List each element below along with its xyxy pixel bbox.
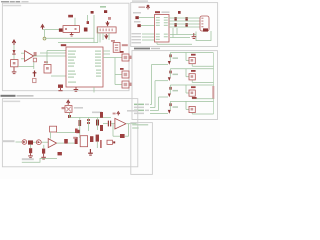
resistor R9 <box>33 78 36 82</box>
capacitor C12 <box>96 118 99 131</box>
K3 label <box>191 86 196 88</box>
IC2 value text <box>162 11 170 13</box>
connector X1 (square) <box>11 60 18 67</box>
wire <box>33 62 35 69</box>
frame D border <box>2 99 137 167</box>
wire into crystal top <box>74 18 76 26</box>
wire <box>16 141 23 143</box>
wires IC1 to right components <box>103 51 122 85</box>
green label text <box>100 6 106 8</box>
wires net labels to IC2 <box>142 34 155 40</box>
capacitor C15 (input of U3) <box>108 121 111 127</box>
LED1 value <box>130 83 132 86</box>
capacitor C22 (upper) <box>75 129 78 134</box>
net text (top right frame D) <box>127 110 138 112</box>
wire <box>13 55 15 60</box>
feedback resistor R12 <box>113 124 129 138</box>
wire below IC1 <box>93 87 95 93</box>
diode D1 <box>135 16 138 19</box>
ground <box>28 153 33 158</box>
label Q2 value <box>68 15 73 18</box>
value text (mid frame D) <box>92 112 102 114</box>
frame B border <box>131 3 218 47</box>
net label rows (left of IC2) <box>132 33 142 43</box>
IC2 interface chip <box>155 15 170 43</box>
wire U3 output <box>126 123 137 125</box>
T3 value text <box>173 90 179 92</box>
connector X2 (serial) <box>200 16 209 32</box>
capacitor C5 <box>185 17 187 27</box>
resistor R10 (below X3) <box>68 115 71 118</box>
note box border <box>131 123 153 175</box>
sheet title text below frame A <box>1 95 34 97</box>
frame D inner header text <box>3 101 20 103</box>
ground (below crystal) <box>70 33 74 37</box>
wires below row <box>31 142 98 149</box>
AGND text <box>22 158 34 160</box>
capacitor C20 <box>29 148 32 153</box>
IC1 microcontroller <box>66 47 103 87</box>
SP1 label <box>120 51 124 53</box>
ground (below IC1) <box>74 87 79 92</box>
jack X3 (boxed) <box>65 106 72 113</box>
net text <box>134 21 141 23</box>
wire op-amp output to IC1 <box>34 55 66 57</box>
header SV1 <box>97 27 116 33</box>
capacitor C2 (left of crystal) <box>59 28 63 31</box>
wire to op-amp U4 <box>42 141 49 143</box>
resistor R15 <box>58 152 62 155</box>
K4 label <box>192 97 197 99</box>
wire <box>111 123 115 125</box>
diode D5 <box>12 45 15 55</box>
supply arrow (down, below header) <box>105 34 108 38</box>
capacitor C17 <box>75 137 78 144</box>
ground (frame B) <box>192 33 197 39</box>
AGND wire <box>22 158 57 162</box>
ground (below X1) <box>12 67 17 74</box>
capacitor C7 (right of op-amp) <box>33 52 36 61</box>
row 1 wires <box>152 53 214 67</box>
supply dot <box>178 11 181 14</box>
S1 label <box>44 61 48 63</box>
sheet title text above frame A <box>1 1 29 2</box>
op-amp U2 <box>21 51 34 62</box>
SP2 label <box>120 68 124 70</box>
wire to op-amp U3 <box>103 123 108 125</box>
diode D7 <box>36 140 41 145</box>
wire X3 down <box>69 112 71 117</box>
reset circuit box S1 <box>44 65 51 74</box>
feedback resistor R14 (above U4) <box>50 126 76 138</box>
supply rail (right) <box>213 53 215 114</box>
wire <box>33 141 37 143</box>
K1 label <box>191 54 196 56</box>
capacitor C14 <box>100 125 103 131</box>
net label rows (bottom left frame C) <box>134 104 149 115</box>
speaker SP1 (boxed) <box>122 54 129 61</box>
wire long bus 2 <box>58 42 98 44</box>
wire long bus 1 <box>45 37 95 39</box>
wire D2 to IC2 <box>141 25 155 27</box>
JP2 value text <box>122 44 128 46</box>
supply symbol VCC (frame B) <box>146 5 149 9</box>
crystal Q2 <box>63 26 79 33</box>
wire long rail frame D <box>70 117 112 119</box>
capacitor C13 (left edge) <box>100 112 103 118</box>
supply label +5V <box>91 11 94 14</box>
frame C border <box>132 51 218 120</box>
op-amp U4 <box>48 139 56 148</box>
frame A inner header text <box>3 5 21 7</box>
X3 value text <box>74 107 83 109</box>
resistor R4 <box>108 17 111 20</box>
T1 value text <box>173 57 179 59</box>
wires IC2 to X2 connector <box>157 18 200 44</box>
net flag (bottom right) <box>107 140 115 144</box>
row 2 wires <box>155 69 214 83</box>
T4 value text <box>173 106 179 108</box>
supply arrow above U3 <box>117 112 120 116</box>
IC3 label <box>73 137 76 139</box>
+12V vertical label <box>212 86 214 99</box>
supply label (top middle) <box>104 10 107 13</box>
junction circle <box>43 37 46 40</box>
relay K2 (boxed) <box>189 74 195 80</box>
wire rows into IC1 left <box>40 51 66 77</box>
relay K3 (boxed) <box>189 90 195 96</box>
resistor R3 (small, above C3) <box>87 21 89 24</box>
wire VCC to crystal <box>43 29 60 31</box>
bus verticals frame C <box>150 65 159 111</box>
amplifier IC3 (boxed) <box>80 136 87 147</box>
diode D2 <box>137 24 140 27</box>
diode D6 <box>22 140 27 145</box>
LED LED1 (boxed) <box>122 81 129 88</box>
capacitor C10 <box>79 118 82 139</box>
resistor R13 <box>28 140 33 144</box>
capacitor C8 (polarized, below) <box>33 71 37 77</box>
row 4 wires <box>150 101 214 114</box>
wire X2 return <box>196 31 211 41</box>
ground (below R5) <box>58 88 62 91</box>
supply symbol VCC (crystal) <box>41 25 44 30</box>
supply arrow (top of frame D) <box>67 100 70 105</box>
buzzer SP2 (boxed) <box>122 71 129 78</box>
trimmer (left edge bottom) <box>100 140 101 148</box>
wire X1 to C8 <box>18 66 34 68</box>
resistor R5 (below-left of IC1) <box>58 85 63 88</box>
capacitor C21 <box>42 149 45 154</box>
row 4: transistor T4 <box>168 101 172 113</box>
title text frame C <box>134 48 160 50</box>
X3 label <box>62 107 65 109</box>
capacitor C11 <box>87 118 90 132</box>
wire <box>68 142 75 144</box>
capacitor C19 <box>96 135 99 142</box>
row 3: transistor T3 <box>168 85 172 97</box>
VCC label text <box>139 6 146 8</box>
wire vertical <box>97 28 99 43</box>
U3 label <box>113 113 116 115</box>
capacitor C18 <box>90 136 93 142</box>
row 3 wires <box>159 85 214 99</box>
connector JP2 (top right) <box>113 43 120 53</box>
wire down from VCC node <box>44 30 46 37</box>
supply arrow (down) <box>106 21 109 25</box>
wires below header <box>100 33 109 43</box>
IC2 label <box>155 11 160 13</box>
frame A (CPU sheet) border <box>2 3 129 91</box>
net text <box>133 12 141 14</box>
capacitor C4 <box>174 17 176 27</box>
capacitor C16 <box>64 139 68 144</box>
wire U4 output <box>57 142 64 144</box>
relay K1 (boxed) <box>189 58 195 64</box>
wire vertical to bus <box>93 15 95 43</box>
supply symbol VCC (left) <box>12 40 15 45</box>
row 1: transistor T1 <box>168 53 172 65</box>
SP1 value <box>130 56 132 59</box>
ground <box>41 154 46 160</box>
JP2 label <box>111 40 115 42</box>
wire <box>87 15 89 21</box>
text above frame B <box>132 0 148 1</box>
wire D1 to IC2 <box>139 17 155 19</box>
K2 label <box>191 70 196 72</box>
row 2: transistor T2 <box>168 69 172 81</box>
relay K4 (boxed) <box>189 106 195 112</box>
net label (right of R14) <box>76 130 79 133</box>
T2 value text <box>173 74 179 76</box>
net label AUDIO L <box>3 140 15 142</box>
IC1 label <box>61 44 66 46</box>
note text lines <box>132 124 148 128</box>
op-amp U3 <box>115 118 126 129</box>
ground (below IC3) <box>88 149 93 156</box>
capacitor C3 (right of crystal) <box>84 28 88 32</box>
